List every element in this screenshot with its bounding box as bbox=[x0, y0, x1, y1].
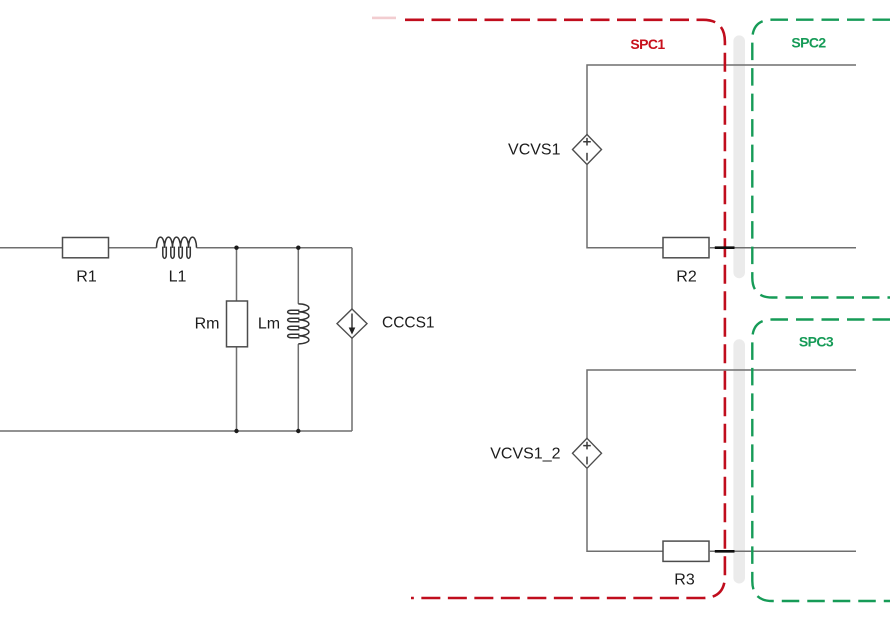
partition boundary SPC2 (green dashed) bbox=[752, 20, 890, 298]
svg-text:CCCS1: CCCS1 bbox=[382, 315, 435, 332]
wire (R3 to right edge) bbox=[709, 550, 856, 552]
wire (lower-right circuit, top rail) bbox=[587, 370, 856, 438]
wire (left circuit, top rail left of R1) bbox=[0, 247, 63, 249]
svg-text:R1: R1 bbox=[76, 269, 97, 286]
svg-text:L1: L1 bbox=[169, 269, 187, 286]
svg-text:R2: R2 bbox=[676, 269, 697, 286]
partition bar (gray, upper) bbox=[733, 35, 745, 278]
resistor R2 bbox=[663, 238, 709, 258]
wire (upper-right circuit, top rail) bbox=[587, 65, 856, 135]
partition boundary SPC3 (green dashed) bbox=[752, 320, 890, 602]
svg-text:SPC3: SPC3 bbox=[799, 334, 834, 350]
wire (Lm branch vertical) bbox=[297, 248, 299, 431]
svg-text:SPC1: SPC1 bbox=[630, 36, 665, 52]
node (bottom rail / Lm junction) bbox=[296, 429, 300, 433]
wire (VCVS1_2 to bottom rail) bbox=[587, 468, 663, 551]
wire (R2 to right edge) bbox=[709, 247, 856, 249]
inductor Lm bbox=[288, 304, 309, 344]
node (bottom rail / Rm junction) bbox=[234, 429, 238, 433]
net tie (black segment after R2) bbox=[715, 246, 735, 249]
partition boundary SPC1 (red dashed) bbox=[405, 20, 725, 598]
partition bar (gray, lower) bbox=[733, 339, 745, 583]
svg-text:Rm: Rm bbox=[195, 316, 220, 333]
wire (Rm branch vertical) bbox=[236, 248, 238, 431]
wire (left circuit, bottom rail) bbox=[0, 430, 352, 432]
voltage source VCVS1 bbox=[573, 135, 602, 165]
inductor L1 bbox=[157, 237, 197, 258]
node (top rail / Rm junction) bbox=[234, 246, 238, 250]
resistor R3 bbox=[663, 541, 709, 561]
net tie (black segment after R3) bbox=[715, 550, 735, 553]
wire (CCCS1 branch vertical) bbox=[351, 248, 353, 431]
svg-text:Lm: Lm bbox=[258, 316, 280, 333]
resistor Rm bbox=[227, 301, 248, 347]
resistor R1 bbox=[63, 238, 109, 258]
node (top rail / Lm junction) bbox=[296, 246, 300, 250]
wire (VCVS1 to bottom rail) bbox=[587, 165, 663, 248]
svg-text:VCVS1_2: VCVS1_2 bbox=[490, 445, 560, 462]
wire (top rail L1 to CCCS1 corner) bbox=[197, 247, 353, 249]
svg-text:VCVS1: VCVS1 bbox=[508, 142, 561, 159]
svg-text:SPC2: SPC2 bbox=[791, 34, 826, 50]
wire (top rail R1 to L1) bbox=[109, 247, 157, 249]
svg-text:R3: R3 bbox=[674, 572, 695, 589]
voltage source VCVS1_2 bbox=[573, 438, 602, 468]
faded red dash remnant bbox=[372, 17, 396, 20]
current source CCCS1 bbox=[337, 309, 367, 338]
